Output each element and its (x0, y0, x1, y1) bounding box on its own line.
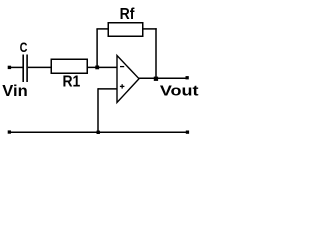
svg-text:Vin: Vin (2, 83, 27, 100)
wire R1 to inverting input (88, 66, 117, 68)
rail left terminal node (8, 130, 11, 133)
capacitor C (23, 55, 27, 83)
input terminal node Vin (8, 66, 11, 69)
wire input terminal to capacitor (11, 66, 23, 68)
ground rail (9, 131, 188, 133)
junction node inverting input (95, 66, 99, 70)
op-amp non-inverting input marker plus (120, 84, 125, 88)
wire non-inverting input horizontal (98, 88, 117, 90)
wire non-inverting input to ground rail vertical (97, 88, 99, 132)
op-amp inverting input marker minus (120, 66, 124, 68)
junction node output (154, 77, 158, 81)
feedback wire top right horizontal (143, 28, 157, 30)
rail right terminal node (186, 131, 189, 134)
junction node ground rail (97, 131, 100, 134)
svg-text:R1: R1 (63, 74, 81, 91)
feedback wire left vertical (96, 29, 98, 68)
feedback wire top left horizontal (96, 28, 108, 30)
svg-text:C: C (20, 39, 28, 55)
svg-text:Rf: Rf (120, 6, 135, 23)
resistor R1 (51, 59, 87, 73)
output terminal node Vout (186, 76, 189, 79)
feedback wire right vertical (155, 28, 157, 78)
wire op-amp output (139, 77, 187, 79)
svg-text:Vout: Vout (160, 83, 199, 100)
resistor Rf (108, 23, 143, 37)
wire capacitor to R1 (28, 66, 51, 68)
op-amp U1 (117, 56, 139, 103)
